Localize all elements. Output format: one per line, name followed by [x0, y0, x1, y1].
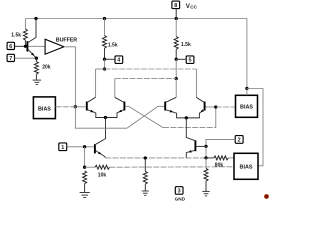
wire top supply rail — [25, 18, 247, 20]
resistor R7 10k (horizontal) — [85, 165, 234, 169]
node top rail junction C (Vcc entry) — [175, 17, 178, 20]
ground (below R9) — [202, 191, 209, 196]
svg-text:BUFFER: BUFFER — [56, 37, 77, 43]
wire supply over and down to lower BIAS — [247, 89, 263, 166]
wire R4 to Q4 collector — [175, 79, 177, 98]
svg-text:20k: 20k — [42, 64, 51, 70]
node emitter rail / 80k junction — [204, 156, 207, 159]
svg-text:6: 6 — [9, 44, 12, 50]
pin 4 box — [115, 56, 123, 64]
resistor R3 1.5k (left load) — [103, 19, 107, 60]
svg-text:10k: 10k — [98, 173, 107, 179]
wire emitter rail — [105, 157, 206, 159]
block lower right BIAS — [234, 153, 258, 179]
pin 7 box — [7, 54, 14, 62]
node Q6 base junction — [204, 145, 207, 148]
wire cross collector rail (Q3 collector to R4) — [115, 78, 176, 80]
wire pin 8 to rail — [175, 9, 177, 19]
node top rail junction A — [34, 17, 37, 20]
wire left BIAS to base rail — [56, 106, 76, 108]
svg-text:GND: GND — [175, 196, 186, 201]
ground (below R6) — [80, 193, 90, 198]
svg-text:7: 7 — [9, 56, 12, 62]
wire Q5 base lead — [205, 106, 215, 108]
svg-text:80k: 80k — [215, 162, 224, 168]
wire base node down to emitter rail node — [205, 146, 207, 158]
svg-text:2: 2 — [238, 138, 241, 144]
wire Q5 base to upper BIAS — [216, 106, 236, 108]
resistor R9 (below 80k node, to ground) — [204, 158, 208, 191]
wire left emitter down to Q7 collector — [96, 118, 106, 145]
node right collector rail junction — [175, 77, 178, 80]
pin 5 box — [186, 56, 194, 64]
wire right supply drop to upper bias — [246, 19, 248, 89]
svg-text:1.5k: 1.5k — [11, 32, 21, 38]
wire base rail to Q2 — [75, 106, 86, 108]
block upper right BIAS — [236, 95, 258, 117]
svg-text:8: 8 — [174, 3, 177, 9]
node left pair emitter junction — [104, 116, 107, 119]
wire buffer output down to left base rail — [64, 47, 76, 107]
ground (below 20k) — [33, 80, 42, 84]
wire cross-couple P (Q2 base down and over to Q4 base) — [75, 107, 127, 128]
wire pin 2 to Q6 base node — [206, 139, 235, 146]
transistor Q1 (input) — [27, 19, 36, 59]
wire rail into upper BIAS top — [246, 89, 248, 96]
node base/R1 junction — [24, 45, 27, 48]
wire tap to pin 5 — [176, 58, 186, 60]
node Q5 base junction — [214, 105, 217, 108]
svg-text:1.5k: 1.5k — [108, 42, 118, 48]
transistor Q6 (output right) — [186, 140, 195, 158]
wire R3 tap down to collector rail — [104, 59, 106, 69]
transistor Q4 (right pair, left) — [165, 97, 186, 118]
node left base rail junction — [74, 105, 77, 108]
wire pin 6 to base — [15, 45, 27, 47]
wire base to buffer input — [28, 45, 45, 47]
svg-text:4: 4 — [117, 58, 120, 64]
svg-text:BIAS: BIAS — [240, 165, 253, 171]
pin 2 box — [235, 136, 243, 144]
wire pin 1 to Q7 base — [67, 146, 94, 148]
resistor R4 1.5k (right load) — [174, 19, 178, 60]
node collector rail junction — [103, 67, 106, 70]
transistor Q3 (left pair, right) — [106, 97, 125, 117]
node top rail junction B — [103, 17, 106, 20]
svg-text:1: 1 — [61, 145, 64, 151]
block left BIAS — [33, 97, 55, 119]
node right pair emitter junction — [185, 116, 188, 119]
wire tap to pin 4 — [105, 58, 116, 60]
node R3 / pin4 tap — [103, 58, 106, 61]
transistor Q5 (right pair, right) — [186, 97, 204, 118]
wire pin 7 to emitter node — [15, 57, 37, 59]
wire Q6 base lead — [196, 145, 206, 147]
label VCC — [186, 3, 198, 10]
svg-text:5: 5 — [189, 58, 192, 64]
node emitter rail / R8 junction — [144, 156, 147, 159]
wire base node down to R6 — [84, 147, 86, 167]
transistor Q7 (output left) — [95, 144, 105, 158]
transistor Q2 (left pair, left) — [87, 97, 106, 117]
resistor R10 80k (horizontal) — [206, 156, 234, 160]
resistor R8 (mid, to ground) — [143, 158, 147, 191]
stray orange speck — [264, 194, 269, 199]
wire right emitters down to Q6 collector — [186, 118, 195, 141]
resistor R2 20k — [34, 58, 38, 80]
pin 8 box — [172, 1, 180, 9]
node R6 / R7 junction — [83, 166, 86, 169]
svg-text:3: 3 — [178, 189, 181, 195]
resistor R6 (below pin 1 node, to ground) — [83, 171, 87, 192]
wire cross-couple Q (Q3 base over to Q5 base) — [125, 106, 163, 127]
node supply / upper BIAS junction — [245, 87, 248, 90]
pin 6 box — [7, 42, 14, 50]
op-amp U1 buffer — [45, 39, 64, 54]
ground (below R8) — [142, 191, 149, 195]
svg-text:BIAS: BIAS — [38, 107, 51, 113]
resistor R1 1.5k (input pull-up) — [23, 19, 27, 47]
svg-text:BIAS: BIAS — [240, 105, 253, 111]
wire collector rail (R3 to Q2 and Q5 collectors) — [96, 68, 105, 70]
svg-text:CC: CC — [190, 4, 197, 9]
wire R4 down to right collector rail — [175, 59, 177, 78]
node emitter/pin7/20k junction — [35, 57, 38, 60]
pin 1 box — [59, 143, 67, 151]
node R4 / pin5 tap — [175, 58, 178, 61]
svg-text:1.5k: 1.5k — [181, 42, 191, 48]
node pin1 / Q7 base junction — [83, 145, 86, 148]
pin 3 box — [175, 187, 183, 195]
